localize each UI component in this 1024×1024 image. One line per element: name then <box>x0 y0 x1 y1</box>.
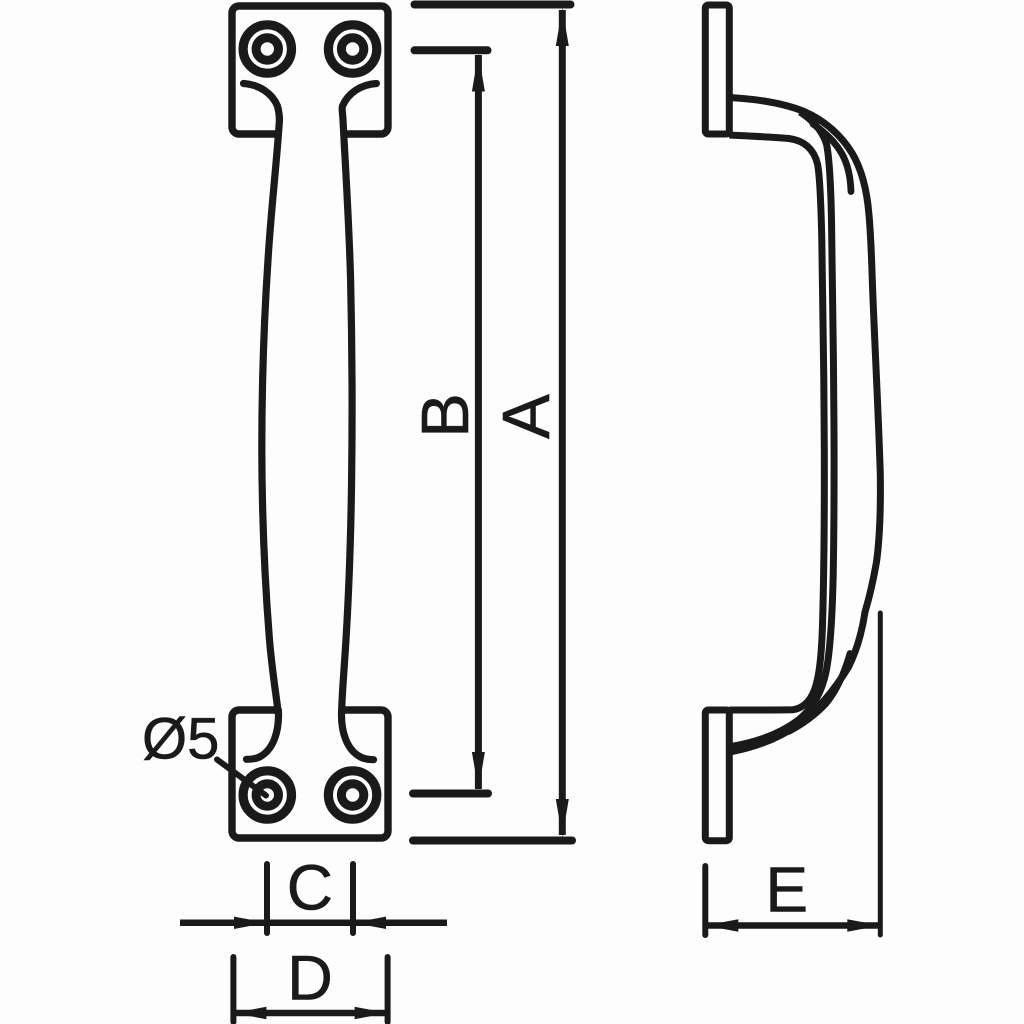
side view front face inner line <box>731 112 834 747</box>
bottom-right shoulder curve <box>341 710 373 760</box>
screw hole top-right outer ring <box>328 25 376 73</box>
arrowhead C right (pointing left) <box>353 917 386 929</box>
dimension C line <box>180 920 447 927</box>
dimension C tick right <box>350 864 356 933</box>
arrowhead E right (pointing right) <box>847 919 880 931</box>
dimension E tick left <box>702 866 708 935</box>
dimension B vertical line <box>475 55 482 789</box>
svg-text:D: D <box>287 943 333 1013</box>
bottom-left shoulder curve <box>247 710 279 759</box>
dimension B bottom extension line <box>413 790 488 798</box>
handle grip front silhouette (white fill masks plate edges) <box>262 112 352 714</box>
arrowhead A bottom <box>556 799 569 837</box>
side view inner contour (back of grip) <box>729 135 824 710</box>
arrowhead B bottom <box>472 752 485 790</box>
screw hole bottom-right inner ring <box>341 784 363 806</box>
diameter label leader line <box>217 760 266 796</box>
dimension D line <box>233 1010 387 1017</box>
arrowhead C left (pointing right) <box>234 917 267 929</box>
screw hole top-left inner ring <box>256 38 278 60</box>
arrowhead E left (pointing left) <box>705 919 738 931</box>
svg-text:C: C <box>287 852 333 924</box>
svg-text:B: B <box>408 393 483 438</box>
screw hole bottom-left inner ring <box>256 784 278 806</box>
front view bottom mounting plate <box>232 710 388 838</box>
arrowhead D left (pointing left) <box>233 1007 266 1019</box>
top-left shoulder curve <box>244 84 280 121</box>
dimension D tick right <box>385 957 391 1022</box>
arrowhead D right (pointing right) <box>355 1007 388 1019</box>
side view bottom plate edge <box>705 710 729 841</box>
dimension A vertical line <box>559 10 566 835</box>
screw hole top-left outer ring <box>243 25 291 73</box>
dimension D tick left <box>230 957 236 1022</box>
side view top plate edge <box>705 5 729 134</box>
handle grip left outline (front) <box>262 119 280 714</box>
top-right shoulder curve <box>342 84 376 121</box>
side view top bend fillet line <box>813 124 851 192</box>
front view top mounting plate <box>232 6 388 134</box>
dimension C tick left <box>264 864 270 933</box>
arrowhead B top <box>472 54 485 92</box>
svg-text:Ø5: Ø5 <box>142 707 219 772</box>
screw hole bottom-right outer ring <box>328 771 376 819</box>
dimension A bottom extension line <box>413 837 572 845</box>
dimension B top extension line <box>415 46 488 54</box>
arrowhead A top <box>556 8 569 46</box>
dimension A top extension line <box>415 1 571 9</box>
side view bottom bend fillet line <box>789 654 851 732</box>
svg-text:E: E <box>765 854 808 926</box>
dimension E extension line right <box>878 613 883 935</box>
side view outer contour <box>729 98 880 752</box>
screw hole top-right inner ring <box>341 38 363 60</box>
dimension E line <box>705 922 880 929</box>
svg-text:A: A <box>489 394 564 439</box>
handle grip right outline (front) <box>342 120 352 714</box>
screw hole bottom-left outer ring <box>243 771 291 819</box>
